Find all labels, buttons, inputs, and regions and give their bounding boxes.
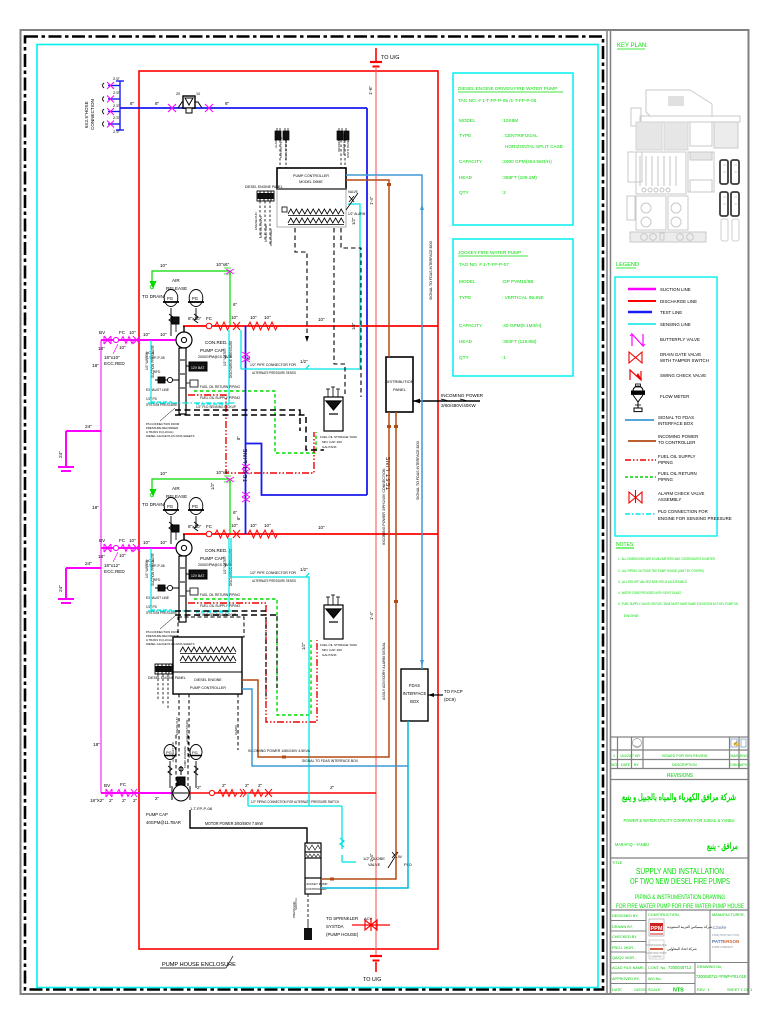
svg-text:LOW PRESSURE: LOW PRESSURE — [185, 719, 189, 742]
legend: discharge line — [628, 299, 697, 304]
svg-text:KEY PLAN:: KEY PLAN: — [617, 43, 648, 49]
svg-text:DRAWING No,: DRAWING No, — [697, 965, 722, 969]
svg-text:DIESEL ENGINE PANEL: DIESEL ENGINE PANEL — [148, 676, 186, 680]
from U/G branch 2 — [58, 568, 101, 603]
jockey suction branch — [101, 792, 172, 794]
svg-text:VALVE: VALVE — [348, 190, 358, 194]
svg-text:(PUMP HOUSE): (PUMP HOUSE) — [326, 932, 359, 937]
svg-text:1'-4": 1'-4" — [369, 611, 374, 620]
svg-text:2.5": 2.5" — [113, 76, 121, 81]
svg-text:PUMP CONTROLLER: PUMP CONTROLLER — [190, 686, 226, 690]
module 1 discharge line (red) — [183, 325, 438, 327]
svg-text::2: :2 — [502, 190, 506, 195]
svg-text:DISTRIBUTION: DISTRIBUTION — [385, 379, 413, 384]
svg-text:DESCRIPTION: DESCRIPTION — [672, 763, 697, 767]
svg-text:10": 10" — [143, 332, 150, 337]
svg-text:MIN. CAP. 290: MIN. CAP. 290 — [322, 648, 342, 652]
flow meter assembly on test line — [168, 104, 213, 112]
jockey pump cap label — [146, 812, 181, 825]
svg-text:DRAIN GATE VALVE: DRAIN GATE VALVE — [660, 352, 701, 357]
svg-text:AIR: AIR — [172, 486, 180, 491]
sensing run pump1 (cyan) — [241, 204, 360, 369]
svg-text:DIESEL GAUGE PLUS DATA SHEETS: DIESEL GAUGE PLUS DATA SHEETS — [146, 434, 195, 438]
svg-text:MODEL: MODEL — [459, 279, 476, 284]
svg-text:1: 1 — [613, 754, 615, 758]
svg-text:10: 10 — [196, 92, 200, 96]
svg-text:PG: PG — [192, 750, 198, 755]
svg-text:ISSUED FOR 90% REVIEW: ISSUED FOR 90% REVIEW — [662, 754, 708, 758]
svg-text:™: ™ — [723, 926, 726, 930]
svg-text:10": 10" — [160, 263, 167, 268]
svg-text:COMPANY: COMPANY — [650, 955, 663, 959]
module 1 fuel oil return (green dashed) — [194, 391, 316, 453]
svg-text:TEST LINE: TEST LINE — [243, 448, 249, 482]
svg-text:SYSTDA: SYSTDA — [326, 924, 344, 929]
svg-text:12V BAT: 12V BAT — [191, 574, 204, 578]
svg-text:1. ALL DIMENSIONS ARE IN MILL: 1. ALL DIMENSIONS ARE IN MILLIMETERS AND… — [618, 557, 715, 561]
revision table lines — [611, 749, 749, 751]
svg-text:5. FUEL SUPPLY VALVE ON FUEL: 5. FUEL SUPPLY VALVE ON FUEL TANK MUST H… — [618, 602, 738, 606]
svg-text:DISCHARGE LINE: DISCHARGE LINE — [660, 299, 697, 304]
svg-text:CONNECTION: CONNECTION — [90, 99, 95, 130]
svg-text:FOR FIRE WATER PUMP FOR FIRE W: FOR FIRE WATER PUMP FOR FIRE WATER PUMP … — [616, 903, 744, 910]
svg-text:TYPE: TYPE — [459, 133, 471, 138]
svg-text:1/2" WATER: 1/2" WATER — [145, 352, 149, 370]
svg-text:FC: FC — [119, 538, 126, 543]
svg-text:FC: FC — [206, 316, 213, 321]
svg-text:DATE: DATE — [612, 988, 622, 992]
svg-text:10": 10" — [318, 525, 325, 530]
manufacturer logo — [712, 925, 740, 949]
svg-text:EXHAUST LINE: EXHAUST LINE — [146, 596, 169, 600]
key plan label — [617, 43, 648, 49]
legend: pld connection — [625, 509, 732, 521]
module 1 fuel tank — [324, 387, 343, 431]
module 2 fuel tank — [324, 595, 343, 639]
svg-text:PUMP RUNNING: PUMP RUNNING — [183, 746, 187, 768]
svg-text:FC: FC — [206, 524, 213, 529]
svg-text:7200040712-YPWP-P01-018: 7200040712-YPWP-P01-018 — [696, 974, 747, 979]
svg-text:1/2" PD: 1/2" PD — [146, 397, 158, 401]
svg-text:12V BAT: 12V BAT — [191, 366, 204, 370]
key plan drawing (site layout, light gray) — [627, 90, 740, 242]
svg-text:CAPACITY: CAPACITY — [459, 323, 483, 328]
svg-text:8": 8" — [236, 516, 241, 520]
svg-text:PPM: PPM — [650, 926, 662, 932]
black dashed fuel drops to tank 2 — [266, 616, 277, 700]
svg-text:TO U/G: TO U/G — [363, 977, 381, 983]
svg-text:2": 2" — [109, 798, 114, 803]
svg-text:20: 20 — [176, 92, 180, 96]
svg-text:ALTERNATE PRESSURE SENSG: ALTERNATE PRESSURE SENSG — [252, 371, 296, 375]
legend: sensing line — [628, 322, 691, 327]
black dash-dot drawing border — [25, 37, 603, 990]
svg-text:HORIZONTAL SPLIT CASE: HORIZONTAL SPLIT CASE — [505, 144, 563, 149]
svg-text:BOX: BOX — [410, 699, 419, 704]
jockey discharge (red) — [190, 792, 376, 794]
incoming power arrow — [413, 400, 480, 402]
svg-text:ALARM: ALARM — [274, 137, 278, 148]
svg-text:1/2" WATER: 1/2" WATER — [145, 560, 149, 578]
svg-text:18": 18" — [93, 742, 100, 748]
svg-text:2000GPM@10.7BAR: 2000GPM@10.7BAR — [198, 563, 233, 567]
module 1 PG gauges — [163, 290, 204, 337]
svg-text:BY: BY — [634, 763, 639, 767]
suction branch at y=340 — [101, 339, 176, 341]
fire water main riser (thin red vertical) — [375, 68, 377, 956]
svg-text:CON.RED.: CON.RED. — [205, 548, 227, 553]
module 1 pump — [172, 317, 192, 348]
svg-text:MIN. CAP. 290: MIN. CAP. 290 — [322, 440, 342, 444]
svg-text:24": 24" — [58, 451, 64, 458]
svg-text:شركة بيبميكس العربية السعودية,: شركة بيبميكس العربية السعودية, — [667, 925, 713, 929]
svg-text::393FT (119.8M): :393FT (119.8M) — [502, 339, 537, 344]
svg-text:TO FACP: TO FACP — [444, 689, 463, 694]
svg-text:APVD: APVD — [740, 763, 750, 767]
svg-text::1: :1 — [502, 355, 506, 360]
svg-text:8": 8" — [155, 101, 160, 106]
svg-text:3. ALL RELIEF VALVES ARE FIEL: 3. ALL RELIEF VALVES ARE FIELD ADJUSTABL… — [618, 580, 687, 584]
svg-text:10": 10" — [264, 315, 271, 320]
svg-text:ALARM CHECK VALVE: ALARM CHECK VALVE — [658, 491, 705, 496]
svg-text:10": 10" — [318, 317, 325, 322]
legend: incoming power — [628, 434, 698, 445]
svg-text:BV: BV — [99, 538, 106, 543]
svg-text:GAL/TANK: GAL/TANK — [322, 653, 337, 657]
svg-text:PUMP COMPANY: PUMP COMPANY — [712, 945, 733, 949]
svg-text:EXHAUST LINE: EXHAUST LINE — [146, 388, 169, 392]
svg-text:MOTOR POWER 3/60/480V 7.5KW: MOTOR POWER 3/60/480V 7.5KW — [205, 821, 263, 826]
module 2 PG gauges — [163, 498, 204, 545]
svg-text:2": 2" — [245, 783, 250, 788]
svg-text:2. ALL PIPING OUTSIDE THE PUM: 2. ALL PIPING OUTSIDE THE PUMP HOUSE (LI… — [618, 569, 705, 573]
svg-text:PROJ. MGR.,: PROJ. MGR., — [612, 946, 635, 950]
title block outer — [611, 737, 749, 994]
legend: suction line — [628, 287, 691, 292]
svg-text:TEST LINE: TEST LINE — [660, 310, 682, 315]
svg-text:TAG NO. # 1-T-FP-P-05 /1-T-FP-: TAG NO. # 1-T-FP-P-05 /1-T-FP-P-06 — [458, 98, 537, 103]
svg-text:2": 2" — [258, 783, 263, 788]
svg-text:WO No,: WO No, — [648, 977, 662, 981]
svg-text:FUEL OIL RETURN PIPING: FUEL OIL RETURN PIPING — [200, 385, 241, 389]
svg-text:DIESEL GAUGE PLUS DATA SHEETS: DIESEL GAUGE PLUS DATA SHEETS — [146, 642, 195, 646]
connector blocks above controller 1 — [275, 131, 349, 140]
svg-text:NO.: NO. — [612, 763, 618, 767]
svg-text:3/60/480V/40KW: 3/60/480V/40KW — [441, 403, 476, 408]
svg-text:PANEL: PANEL — [393, 387, 407, 392]
legend: swing check valve — [630, 370, 706, 380]
svg-text:FLOW METER: FLOW METER — [660, 394, 689, 399]
svg-text:SUCTION PRESSURE: SUCTION PRESSURE — [151, 345, 155, 378]
svg-text:INCOMING POWER 1/60/240V 4.5KV: INCOMING POWER 1/60/240V 4.5KVA — [248, 749, 311, 753]
svg-text:INCOMING POWER: INCOMING POWER — [658, 434, 698, 439]
svg-text:2": 2" — [197, 785, 202, 790]
svg-text:1/2" PIPE CONNECTOR FOR: 1/2" PIPE CONNECTOR FOR — [250, 571, 296, 575]
svg-text:18": 18" — [92, 363, 99, 369]
svg-text:MODEL D9ME: MODEL D9ME — [299, 180, 323, 184]
svg-text:INTERFACE: INTERFACE — [403, 691, 427, 696]
svg-text:DISTR PANEL: DISTR PANEL — [346, 138, 350, 158]
svg-text:PG: PG — [192, 296, 198, 301]
test line drop between pumps (blue) — [246, 326, 368, 534]
svg-text:ENGINE FOR SENSING PRESSURE: ENGINE FOR SENSING PRESSURE — [658, 516, 732, 521]
legend: flow meter — [632, 384, 690, 412]
svg-text:8"x10": 8"x10" — [188, 524, 202, 529]
svg-text:18"X2": 18"X2" — [90, 798, 104, 803]
svg-text:PG: PG — [192, 504, 198, 509]
svg-text:SHEET 1 OF 1: SHEET 1 OF 1 — [727, 988, 752, 992]
svg-text:SIGNAL TO FDAS INTERFACE BOX: SIGNAL TO FDAS INTERFACE BOX — [302, 759, 359, 763]
svg-text:FUEL OIL STORAGE TANK: FUEL OIL STORAGE TANK — [320, 643, 357, 647]
construction PPM logo — [646, 919, 713, 959]
svg-text:ACAD FILE NAME,: ACAD FILE NAME, — [612, 966, 645, 970]
svg-text:10": 10" — [264, 523, 271, 528]
svg-text:PG: PG — [167, 504, 173, 509]
module 2 pump — [172, 525, 192, 556]
svg-text:HI ENG TEMP: HI ENG TEMP — [264, 224, 268, 242]
legend: butterfly valve — [630, 334, 700, 346]
svg-text:SUPPLY AND INSTALLATION: SUPPLY AND INSTALLATION — [636, 866, 724, 876]
svg-text:CHKD: CHKD — [730, 763, 741, 767]
svg-text:18": 18" — [98, 554, 105, 559]
svg-text:PATT: PATT — [712, 939, 724, 944]
svg-text:18": 18" — [98, 346, 105, 351]
module 2 fuel oil supply (red dash-dot) — [188, 603, 317, 722]
module 1 engine column — [179, 348, 207, 414]
svg-text:BV: BV — [99, 330, 106, 335]
svg-text:: CENTRIFUGAL: : CENTRIFUGAL — [502, 133, 538, 138]
svg-text:1/2" PD: 1/2" PD — [146, 605, 158, 609]
svg-text:DIESEL ENGINE PANEL: DIESEL ENGINE PANEL — [245, 185, 283, 189]
svg-text:10": 10" — [160, 332, 167, 337]
svg-text:OF TWO NEW DIESEL FIRE PUMPS: OF TWO NEW DIESEL FIRE PUMPS — [630, 876, 730, 886]
svg-text:GAL/TANK: GAL/TANK — [322, 445, 337, 449]
svg-text:6X2.5"HOSE: 6X2.5"HOSE — [84, 101, 89, 128]
svg-text:AIR: AIR — [172, 278, 180, 283]
svg-text:10"x6": 10"x6" — [216, 470, 230, 475]
svg-text:TYPE: TYPE — [459, 295, 471, 300]
svg-text::10X8M: :10X8M — [502, 118, 518, 123]
dashed drops from controller 1 to fuel tank — [295, 228, 361, 397]
svg-text:2.5": 2.5" — [113, 90, 121, 95]
suction header (magenta vertical) — [100, 340, 102, 793]
module 1 pld sensing (cyan dash-dot) — [148, 402, 235, 404]
svg-text:(DC9): (DC9) — [444, 697, 456, 702]
svg-text:10": 10" — [119, 553, 126, 558]
svg-text:PUMP CAP: PUMP CAP — [200, 348, 224, 353]
svg-text:18"x12": 18"x12" — [104, 563, 120, 568]
module 2 fuel oil labels — [196, 593, 241, 617]
svg-text:PUMP CAP: PUMP CAP — [146, 812, 168, 817]
module 2 fuel oil return (green dashed) — [194, 599, 311, 715]
svg-text:LOW OIL PRESS: LOW OIL PRESS — [259, 216, 263, 238]
svg-text:1'-4": 1'-4" — [369, 196, 374, 205]
svg-text:FUEL OIL SUPPLY PIPING: FUEL OIL SUPPLY PIPING — [200, 604, 241, 608]
svg-text:FUEL OIL STORAGE TANK: FUEL OIL STORAGE TANK — [320, 435, 357, 439]
svg-text:2.5": 2.5" — [113, 129, 121, 134]
svg-text:HEAD: HEAD — [459, 175, 473, 180]
svg-text:MARAFIQ - YANBU: MARAFIQ - YANBU — [615, 842, 649, 848]
svg-text:24": 24" — [85, 424, 92, 430]
svg-text:QA/QC MGR.,: QA/QC MGR., — [612, 956, 636, 960]
svg-text:SIGNAL TO FDAS INTERFACE BOX: SIGNAL TO FDAS INTERFACE BOX — [429, 240, 433, 300]
svg-text:1/2": 1/2" — [301, 642, 306, 650]
legend: signal to fdas — [625, 415, 694, 426]
butterfly valves on test drop (magenta) — [242, 352, 250, 502]
svg-text:FUEL OIL RETURN PIPING: FUEL OIL RETURN PIPING — [200, 593, 241, 597]
svg-text:2": 2" — [122, 798, 127, 803]
svg-text:FC: FC — [120, 782, 127, 787]
diesel spec box — [453, 73, 573, 225]
svg-text:DATE: DATE — [621, 763, 631, 767]
svg-text:1/2" PIPE CONNECTOR FOR: 1/2" PIPE CONNECTOR FOR — [250, 363, 296, 367]
svg-text:TO SPRINKLER: TO SPRINKLER — [326, 916, 358, 921]
svg-text:CON.RED.: CON.RED. — [205, 340, 227, 345]
svg-text:TO DRAIN: TO DRAIN — [142, 294, 164, 299]
svg-text:BUTTERFLY VALVE: BUTTERFLY VALVE — [660, 337, 700, 342]
svg-text:FIRE PROTECTION: FIRE PROTECTION — [712, 933, 739, 937]
pump controller 1 — [277, 168, 346, 227]
svg-text:REV. 1: REV. 1 — [697, 988, 710, 992]
sprinkler branch with alarm check valve — [352, 918, 390, 931]
svg-text:ECC.RED: ECC.RED — [104, 569, 125, 574]
svg-text:FUEL OIL RETURN: FUEL OIL RETURN — [658, 471, 697, 476]
svg-text:CONT. No,: CONT. No, — [648, 966, 666, 970]
pump1 psi connection note — [146, 422, 195, 438]
svg-text:INTERFACE BOX: INTERFACE BOX — [658, 421, 693, 426]
svg-text::358FT (109.1M): :358FT (109.1M) — [502, 175, 537, 180]
svg-text:2.5": 2.5" — [113, 103, 121, 108]
svg-text:40GPM@11.7BAR: 40GPM@11.7BAR — [146, 820, 181, 825]
legend box — [615, 277, 717, 536]
legend: fuel oil supply — [625, 454, 695, 465]
jockey PG gauges — [164, 745, 202, 789]
svg-text:8": 8" — [130, 101, 135, 106]
svg-text:ASSEMBLY: ASSEMBLY — [658, 497, 681, 502]
svg-text:DIESEL ENGINE DRIVEN FIRE WATE: DIESEL ENGINE DRIVEN FIRE WATER PUMP — [458, 86, 557, 91]
dashed drops from controller 2 — [176, 694, 238, 786]
svg-text:NTS: NTS — [673, 988, 684, 994]
TO U/G connection (top) — [370, 48, 382, 67]
sensing run pump2 (cyan) — [231, 538, 309, 806]
svg-text:10": 10" — [160, 540, 167, 545]
svg-text:REVISIONS: REVISIONS — [667, 773, 693, 779]
svg-text:10": 10" — [160, 471, 167, 476]
svg-text:10": 10" — [129, 538, 136, 543]
svg-text:2.5": 2.5" — [113, 115, 121, 120]
engine fuel piping loop (black dashed) — [175, 410, 324, 615]
svg-text:ALTERNATE PRESSURE SENSG: ALTERNATE PRESSURE SENSG — [252, 579, 296, 583]
svg-text:2": 2" — [155, 796, 160, 801]
svg-text:SWING CHECK VALVE: SWING CHECK VALVE — [660, 373, 706, 378]
incoming power to controller 1 (brown) — [242, 180, 396, 879]
svg-text:SENSING LINE: SENSING LINE — [660, 322, 691, 327]
module 2 flow switch left — [151, 584, 179, 592]
jockey sensing line (cyan) — [248, 793, 356, 862]
pump house enclosure (red) — [139, 71, 438, 949]
diesel pump module 2: air release loop (green) — [150, 476, 231, 534]
svg-text:PUMP CAP: PUMP CAP — [200, 556, 224, 561]
svg-text:7200040712: 7200040712 — [668, 965, 692, 970]
svg-text:1/2": 1/2" — [210, 482, 215, 490]
svg-text:10": 10" — [250, 315, 257, 320]
svg-text:CAPACITY: CAPACITY — [459, 159, 483, 164]
svg-text:8": 8" — [225, 101, 230, 106]
module 2 discharge line (red) — [183, 533, 438, 535]
svg-text:QTY: QTY — [459, 190, 470, 195]
svg-text:SUCTION LINE: SUCTION LINE — [660, 287, 691, 292]
svg-text:SWITCH: SWITCH — [294, 898, 298, 910]
svg-text:10": 10" — [250, 523, 257, 528]
svg-text:FC: FC — [119, 330, 126, 335]
svg-text:1/2": 1/2" — [351, 322, 356, 330]
svg-text:VALVE: VALVE — [368, 862, 381, 867]
6x2.5" hose connection header — [108, 81, 124, 130]
svg-text:10": 10" — [119, 345, 126, 350]
jockey spec box — [453, 239, 573, 376]
svg-text:PUMP CONTROLLER: PUMP CONTROLLER — [293, 174, 329, 178]
company block — [615, 792, 738, 852]
svg-text:TO DRAIN: TO DRAIN — [142, 502, 164, 507]
pump controller 2 — [178, 617, 244, 637]
svg-text:JOCKEY PUMP: JOCKEY PUMP — [306, 882, 327, 886]
main test line (blue) top run — [120, 108, 367, 495]
svg-text:8": 8" — [236, 436, 241, 440]
terminal strips inside controller 1 — [282, 207, 344, 225]
svg-text:PIPING: PIPING — [658, 477, 673, 482]
svg-text:ENGINE RUN: ENGINE RUN — [175, 717, 179, 735]
svg-text:QTY: QTY — [459, 355, 470, 360]
svg-text:18"x10": 18"x10" — [104, 355, 120, 360]
svg-text:شركة اتحاد المقاولين: شركة اتحاد المقاولين — [667, 947, 697, 951]
svg-text:6": 6" — [233, 302, 238, 307]
svg-text:DRAWN BY,: DRAWN BY, — [612, 925, 633, 929]
green drain circles — [150, 285, 154, 289]
svg-text:✍: ✍ — [733, 740, 739, 747]
svg-text:8"x10": 8"x10" — [188, 316, 202, 321]
svg-text:24": 24" — [85, 561, 92, 567]
pump house enclosure label — [160, 956, 236, 968]
svg-text:DIESEL ENGINE: DIESEL ENGINE — [194, 678, 222, 682]
svg-text:LOW SUCTION: LOW SUCTION — [171, 742, 175, 762]
FDAS interface box — [401, 669, 428, 721]
svg-text:PIPING & INSTRUMENTATION DRAWI: PIPING & INSTRUMENTATION DRAWING — [635, 894, 725, 901]
svg-text:2000GPM@10.7BAR: 2000GPM@10.7BAR — [198, 355, 233, 359]
distribution panel — [386, 357, 413, 412]
svg-text:1/2" GLOBE: 1/2" GLOBE — [363, 856, 385, 861]
svg-text:MANUFACTURER,: MANUFACTURER, — [712, 913, 745, 917]
svg-text:1'-6": 1'-6" — [368, 85, 373, 95]
header size labels — [92, 363, 100, 748]
svg-text:INCOMING: INCOMING — [337, 136, 341, 152]
svg-text:2": 2" — [133, 798, 138, 803]
module 2 engine column — [179, 556, 207, 622]
suction branch at y=548 — [101, 547, 176, 549]
jockey pump — [172, 766, 190, 801]
notes — [616, 542, 738, 618]
motor power line (black) — [190, 810, 307, 843]
svg-text:DISCHARGE PRESSURE: DISCHARGE PRESSURE — [229, 341, 233, 378]
svg-text:2": 2" — [330, 785, 335, 790]
svg-text:BV: BV — [104, 783, 111, 788]
svg-text:1/2" WATER: 1/2" WATER — [223, 556, 227, 574]
signal to fdas (light blue) — [242, 175, 422, 766]
svg-text::40 GPM(9.1M3/H): :40 GPM(9.1M3/H) — [502, 323, 542, 328]
svg-text:1/2": 1/2" — [351, 217, 356, 225]
svg-text:PLD CONNECTION FOR: PLD CONNECTION FOR — [658, 509, 708, 514]
svg-text:ENGINE RUN: ENGINE RUN — [254, 212, 258, 230]
svg-text:INCOMING POWER 3/PH/240V CONNE: INCOMING POWER 3/PH/240V CONNECTION — [382, 468, 386, 545]
